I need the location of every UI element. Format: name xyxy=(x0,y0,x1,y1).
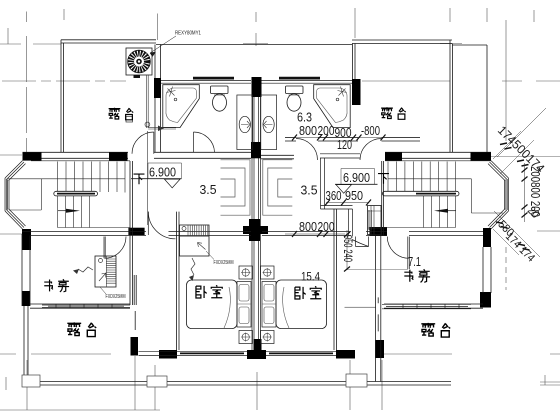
toilet right tank xyxy=(286,86,304,94)
lamp right top xyxy=(264,269,271,276)
wall seg A xyxy=(285,138,296,142)
svg-text:200800 200: 200800 200 xyxy=(528,166,542,217)
AC outdoor foot xyxy=(134,75,141,78)
grid vertical center top xyxy=(255,12,257,46)
lamp left bottom xyxy=(242,333,249,340)
stair arrow left xyxy=(58,210,66,212)
lamp left top xyxy=(242,269,249,276)
hall terrace line right xyxy=(345,306,376,308)
dim line row1 right xyxy=(285,137,420,139)
dim line row2 xyxy=(285,233,345,235)
left terrace divider wall xyxy=(130,161,133,305)
AC left-study arrowhead xyxy=(73,269,79,274)
pier B3 right xyxy=(352,79,361,105)
refrigerant pipe vertical xyxy=(147,75,149,128)
AC indoor left-bedroom box xyxy=(180,225,210,256)
grid vertical right F dashed low xyxy=(505,247,507,290)
window W1 glazing band xyxy=(193,77,234,80)
bay west window xyxy=(5,178,9,211)
pier B21 xyxy=(128,228,144,235)
grid vertical terrace left xyxy=(63,9,65,20)
level box left xyxy=(148,163,182,179)
toilet left bowl xyxy=(213,94,227,111)
stair rail left fill xyxy=(57,193,95,195)
stair landing lines right xyxy=(383,161,503,228)
interior wall right unit stub xyxy=(369,210,371,230)
door bedroom right pocket xyxy=(356,237,369,247)
bathtub right drain xyxy=(336,98,339,101)
grid vertical far right top xyxy=(533,10,535,22)
grid vertical bottom f xyxy=(349,360,351,410)
stair rail right xyxy=(383,191,460,196)
grid mark bottom right xyxy=(544,375,546,385)
grid vertical bottom e xyxy=(256,372,258,410)
pier B1 xyxy=(154,78,161,98)
svg-text:-800: -800 xyxy=(361,123,380,138)
lamp left top cross xyxy=(241,268,250,277)
pier B16 xyxy=(131,337,139,356)
junction box b xyxy=(147,376,167,387)
window W1 frame xyxy=(161,81,251,84)
dim diagonal line bottom-right xyxy=(494,211,540,257)
main wall row y=152-158 xyxy=(23,152,492,159)
switch box small xyxy=(126,117,133,123)
label bedroom right 卧室 xyxy=(295,286,322,299)
label xia left 下 xyxy=(134,174,145,184)
wall row left segment xyxy=(23,152,129,158)
dim extension right unit xyxy=(347,269,408,271)
dim ticks far right xyxy=(522,168,528,218)
bathtub left xyxy=(163,85,200,128)
closet left nest xyxy=(221,160,251,215)
level triangle right xyxy=(336,185,352,194)
door bedroom right arc xyxy=(352,240,369,247)
door terrace right 2 arc xyxy=(360,139,382,161)
AC indoor left-study fan circle xyxy=(99,259,103,263)
study top wall right xyxy=(409,232,483,236)
svg-text:120: 120 xyxy=(337,138,352,152)
stair upper treads right xyxy=(388,162,456,193)
door study right arc xyxy=(387,237,409,259)
study bottom wall left xyxy=(30,304,130,308)
dim ticks 360-950 xyxy=(325,200,371,206)
level triangle left xyxy=(165,179,181,188)
svg-text:6.900: 6.900 xyxy=(149,165,176,180)
AC indoor left-bedroom arrow xyxy=(198,243,206,250)
left bedroom west wall xyxy=(177,212,180,350)
toilet right seat line xyxy=(289,94,300,96)
right terrace parapet right xyxy=(450,40,453,152)
pier B6 center mid xyxy=(251,142,261,158)
label terrace top-right 露台 xyxy=(381,107,406,119)
bay SE chamfer xyxy=(488,209,509,229)
stair rail left xyxy=(54,191,98,196)
right terrace y81 dash xyxy=(362,80,450,82)
door shower left leaf xyxy=(193,132,195,152)
bathtub left basin xyxy=(166,88,197,123)
grid horizontal y410 xyxy=(0,409,160,411)
right bedroom east wall xyxy=(334,209,337,350)
right house east wall xyxy=(483,247,491,293)
bed left blanket curve xyxy=(224,287,230,328)
dim ticks diagonal top-right xyxy=(500,143,529,166)
pier B12 xyxy=(22,229,31,250)
grid vertical right terrace top xyxy=(449,8,451,22)
toilet left tank xyxy=(211,86,229,94)
lamp left bottom cross xyxy=(241,333,250,342)
label bedroom left 卧室 xyxy=(196,285,223,298)
pier B17 xyxy=(159,350,177,359)
door stair hall left arc xyxy=(148,212,175,239)
study window W6 xyxy=(382,304,471,309)
door study right leaf xyxy=(408,237,410,270)
left bathroom west wall xyxy=(155,45,161,153)
door study left leaf xyxy=(104,237,105,259)
bed left body xyxy=(187,280,238,329)
pier B10 xyxy=(370,227,388,236)
bathtub right xyxy=(314,85,351,128)
AC indoor left-study grille xyxy=(106,256,116,287)
lamp right bottom xyxy=(264,333,271,340)
junction box a xyxy=(22,375,40,387)
AC indoor left-bedroom fan circle xyxy=(182,227,186,231)
stair arrowhead left xyxy=(66,209,80,213)
leader FXDX study xyxy=(100,287,106,294)
stair lower treads right xyxy=(424,196,456,228)
right unit wall row y=137.5-141 xyxy=(285,138,420,142)
stair landing lines left xyxy=(8,161,130,228)
grid horizontal y354 xyxy=(0,353,560,355)
leader FXDX bedroom xyxy=(206,251,214,260)
svg-text:3.5: 3.5 xyxy=(200,182,217,197)
center wall lower xyxy=(252,158,261,350)
grid vertical bottom b xyxy=(26,360,28,410)
stair arrow right xyxy=(448,210,456,212)
wall seg C xyxy=(382,138,421,142)
interior wall hall west right unit xyxy=(321,158,325,209)
AC outdoor fan hub xyxy=(137,60,141,64)
bay east window xyxy=(505,178,509,211)
top wall center single xyxy=(156,44,352,46)
grid horizontal right of bay xyxy=(491,155,560,157)
label study right 书房 xyxy=(404,269,430,282)
svg-text:950 240: 950 240 xyxy=(341,235,355,262)
label terrace bottom-left 露台 xyxy=(67,322,96,336)
interior wall hall south right unit xyxy=(321,206,353,210)
AC indoor left-bedroom grille xyxy=(180,226,210,237)
wall row center-right segment xyxy=(261,155,294,159)
grid horizontal y382 right stub xyxy=(540,382,560,385)
level underline left xyxy=(131,178,182,180)
bed right pillows inner xyxy=(264,285,274,302)
AC indoor left-study arrow xyxy=(99,273,106,281)
grid vertical bottom d xyxy=(154,365,156,410)
grid vertical bottom g xyxy=(381,360,383,410)
bay NE chamfer xyxy=(488,161,509,181)
AC left-bedroom arrow xyxy=(191,258,195,275)
dim extension diagonals top-right xyxy=(493,131,534,174)
pipe branch horizontal xyxy=(148,127,176,129)
pier B9 cross column xyxy=(243,219,268,241)
left terrace west wall xyxy=(24,306,28,382)
grid horizontal y155 left stub xyxy=(0,154,22,156)
left terrace parapet top xyxy=(61,40,156,43)
study window W5 xyxy=(42,304,130,308)
AC indoor right box xyxy=(368,206,382,235)
svg-text:800: 800 xyxy=(299,219,317,234)
door bath hall left leaf xyxy=(153,132,155,154)
bedroom top wall right xyxy=(262,232,351,236)
vanity counter right xyxy=(261,95,277,150)
dim ticks row1 xyxy=(292,135,386,141)
lamp right bottom cross xyxy=(263,333,272,342)
nightstand right bottom xyxy=(261,331,275,344)
pier B4 xyxy=(23,152,42,160)
bathtub left tap xyxy=(167,87,176,97)
svg-text:3.5: 3.5 xyxy=(301,183,318,198)
label xia right 下 xyxy=(378,174,389,184)
bed left pillow split xyxy=(237,303,251,305)
pier B8 xyxy=(471,152,492,160)
grid vertical bottom c xyxy=(134,356,136,410)
grid horizontal y81 dashes xyxy=(2,80,126,82)
grid vertical right E top xyxy=(486,8,488,22)
grid horizontal top2 xyxy=(0,43,462,46)
level box right xyxy=(341,169,375,185)
bed right blanket curve xyxy=(283,287,289,328)
label terrace bottom-right 露台 xyxy=(421,323,450,337)
pipe valve xyxy=(145,122,150,127)
bay NW chamfer xyxy=(5,161,26,181)
AC outdoor fan donut xyxy=(131,53,147,69)
pier B5 xyxy=(109,152,128,160)
grid vertical right F xyxy=(505,20,507,141)
wall row right-stair segment xyxy=(385,152,491,158)
left house west wall xyxy=(22,234,30,306)
svg-text:15.4: 15.4 xyxy=(301,270,320,284)
nightstand left bottom xyxy=(239,331,253,344)
dim line 360-950 xyxy=(326,202,369,204)
dim ticks row2 xyxy=(292,231,329,237)
pier B14 xyxy=(480,292,491,308)
pipe branch arrow xyxy=(158,126,164,132)
toilet left seat line xyxy=(214,94,225,96)
terrace bottom wall xyxy=(40,382,451,386)
bathtub left drain xyxy=(174,98,177,101)
label study left 书房 xyxy=(44,279,69,292)
dim ticks vertical center xyxy=(344,232,350,272)
grid horizontal y234 left stub xyxy=(0,233,22,235)
grid vertical right wall top xyxy=(354,8,356,38)
door study left arc xyxy=(105,237,127,259)
dim diagonal line top-right xyxy=(497,108,546,157)
grid vertical bottom a xyxy=(5,377,7,390)
basin left xyxy=(239,116,250,132)
AC left-study arrow xyxy=(78,267,93,272)
lamp right top cross xyxy=(263,268,272,277)
hall wall right xyxy=(366,232,387,236)
stair rail right fill xyxy=(416,193,456,195)
label terrace top-left 露台 xyxy=(109,108,134,120)
vanity counter left xyxy=(237,95,253,150)
svg-text:FXDX25MM: FXDX25MM xyxy=(214,260,234,266)
junction box c xyxy=(346,374,367,387)
level underline right xyxy=(335,183,378,185)
svg-text:REXY80MY1: REXY80MY1 xyxy=(175,31,201,37)
leader REXY xyxy=(150,36,176,57)
pier B7 xyxy=(385,152,402,160)
dim vertical line center xyxy=(346,230,348,270)
hall top wall left xyxy=(169,232,252,236)
bed left pillow column xyxy=(237,282,251,328)
window W2 glazing band xyxy=(279,77,320,80)
stair upper treads left xyxy=(58,162,126,193)
divider wall lower segment xyxy=(134,275,136,330)
wall seg B xyxy=(318,138,358,142)
pier B19 xyxy=(336,350,355,359)
right outside y81 xyxy=(502,80,560,82)
pier B18 tee xyxy=(247,339,266,359)
bathroom top window left lines xyxy=(161,81,352,84)
svg-text:7.1: 7.1 xyxy=(408,255,421,269)
window W4 band xyxy=(269,352,333,354)
AC outdoor unit box xyxy=(126,48,152,75)
grid vertical A left xyxy=(7,28,9,44)
closet right nest xyxy=(263,160,293,215)
left terrace parapet left xyxy=(61,40,64,152)
grid vertical B left dashed xyxy=(25,12,27,153)
stair lower treads left xyxy=(58,196,90,228)
right terrace parapet top xyxy=(352,40,452,44)
pipe drop to bedroom xyxy=(146,131,148,225)
pier B20 xyxy=(375,340,384,358)
svg-text:FXDX25MM: FXDX25MM xyxy=(106,294,126,300)
basin right xyxy=(263,116,274,132)
svg-text:174 174: 174 174 xyxy=(503,231,537,265)
nightstand right top xyxy=(261,266,275,279)
bathtub right basin xyxy=(317,88,348,123)
svg-text:950: 950 xyxy=(345,188,363,203)
center party wall xyxy=(252,97,261,350)
center wall upper xyxy=(252,97,261,142)
bedroom window W4 frame xyxy=(266,351,336,355)
basin left tap xyxy=(241,121,250,128)
right study west wall xyxy=(376,236,381,382)
bedroom window W3 frame xyxy=(139,351,248,355)
stair arrowhead right xyxy=(434,209,448,213)
svg-text:360: 360 xyxy=(326,188,342,203)
pier B13 xyxy=(22,291,30,306)
toilet right bowl xyxy=(287,94,301,111)
grid vertical wall axis left xyxy=(157,14,159,41)
study bottom wall right xyxy=(384,304,483,308)
AC indoor right grille xyxy=(368,206,382,235)
window W3 band xyxy=(180,352,244,354)
svg-text:200: 200 xyxy=(318,123,335,138)
pier B2 center top xyxy=(252,77,262,97)
bay SW chamfer xyxy=(5,209,26,229)
door stair hall left leaf xyxy=(147,212,149,235)
bathtub right tap xyxy=(338,87,347,97)
right terrace parapet left stub xyxy=(353,44,356,80)
window W2 frame xyxy=(261,81,352,84)
bed right body xyxy=(276,280,327,329)
svg-text:200: 200 xyxy=(318,219,335,234)
study top wall left xyxy=(22,232,146,236)
pier B11 xyxy=(483,228,491,247)
basin right tap xyxy=(264,121,273,128)
top right ledge xyxy=(452,45,487,152)
bed right pillow split xyxy=(262,303,276,305)
bed right pillow column xyxy=(262,282,276,328)
svg-text:6.900: 6.900 xyxy=(343,170,370,185)
dim vertical line far right xyxy=(524,163,526,222)
AC indoor left-study box xyxy=(95,256,116,287)
dim ticks diagonal bottom-right xyxy=(496,222,530,250)
interior wall hall east right unit xyxy=(349,209,353,236)
door terrace right 1 arc xyxy=(296,139,318,161)
nightstand left top xyxy=(239,266,253,279)
bed left pillows inner xyxy=(239,285,249,302)
door shower left arc xyxy=(194,132,215,152)
grid horizontal y231 right stub xyxy=(537,230,560,232)
wall row mid segment xyxy=(154,152,251,158)
AC left-bedroom arrowhead xyxy=(189,275,194,281)
dim extension diagonals bottom-right xyxy=(493,220,536,255)
door bath hall left arc xyxy=(132,132,154,154)
interior wall hall north right unit xyxy=(320,154,360,158)
svg-text:800: 800 xyxy=(299,123,317,138)
stair boundary wall right xyxy=(382,161,384,236)
